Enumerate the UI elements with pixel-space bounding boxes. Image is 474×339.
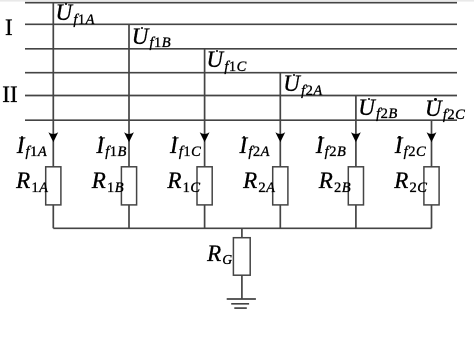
bus label II bbox=[2, 83, 17, 106]
wire RG to ground bbox=[241, 228, 243, 237]
resistor label R2C bbox=[394, 169, 427, 192]
bus II phase B line bbox=[25, 95, 457, 97]
resistor label R1A bbox=[16, 169, 48, 192]
current label If2C bbox=[395, 134, 426, 157]
voltage label Uf2C bbox=[425, 97, 465, 120]
voltage label Uf2A bbox=[283, 72, 322, 95]
wire fault branch 2C bbox=[431, 120, 433, 228]
current arrow If1A bbox=[48, 132, 58, 142]
current arrow If1B bbox=[124, 132, 134, 142]
current arrow If2C bbox=[427, 132, 437, 142]
ground symbol bbox=[227, 298, 256, 300]
resistor label R1C bbox=[167, 169, 200, 192]
resistor label R1B bbox=[92, 169, 124, 192]
resistor R1C bbox=[197, 167, 212, 205]
wire fault branch 1C bbox=[204, 49, 206, 229]
resistor R2B bbox=[348, 167, 363, 205]
bus I phase C line bbox=[25, 48, 457, 50]
current label If1C bbox=[170, 134, 201, 157]
resistor label R2B bbox=[319, 169, 351, 192]
bus label I bbox=[5, 16, 13, 39]
resistor label R2A bbox=[243, 169, 275, 192]
wire fault branch 1A bbox=[52, 3, 54, 229]
current label If2B bbox=[316, 134, 347, 157]
resistor RG bbox=[233, 238, 250, 276]
resistor R1A bbox=[46, 167, 61, 205]
bus I phase A line bbox=[25, 2, 457, 4]
resistor R2C bbox=[424, 167, 439, 205]
bus I phase B line bbox=[25, 23, 457, 25]
voltage label Uf1C bbox=[207, 48, 247, 71]
resistor label RG bbox=[207, 242, 233, 265]
current label If1A bbox=[17, 134, 48, 157]
current arrow If2B bbox=[351, 132, 361, 142]
voltage label Uf1B bbox=[132, 25, 171, 48]
current label If1B bbox=[96, 134, 127, 157]
wire fault branch 1B bbox=[128, 24, 130, 228]
resistor R2A bbox=[273, 167, 288, 205]
voltage label Uf1A bbox=[56, 1, 95, 24]
bus II phase C line bbox=[25, 119, 457, 121]
resistor R1B bbox=[121, 167, 136, 205]
common bottom node wire bbox=[53, 227, 431, 229]
current arrow If2A bbox=[275, 132, 285, 142]
voltage label Uf2B bbox=[358, 96, 397, 119]
current arrow If1C bbox=[200, 132, 210, 142]
current label If2A bbox=[240, 134, 271, 157]
wire fault branch 2B bbox=[355, 96, 357, 229]
wire fault branch 2A bbox=[279, 73, 281, 229]
bus II phase A line bbox=[25, 72, 457, 74]
